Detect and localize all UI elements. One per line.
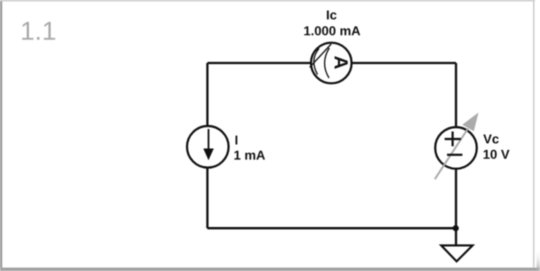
current direction arrow shaft xyxy=(208,129,210,151)
variable arrow shaft xyxy=(435,129,468,180)
variable arrow head xyxy=(462,113,478,132)
current source I (1 mA) xyxy=(187,126,229,168)
node junction dot xyxy=(453,225,459,231)
minus sign xyxy=(447,154,462,156)
ammeter letter A (rotated) xyxy=(335,56,348,69)
wire left xyxy=(206,63,208,228)
wire bottom xyxy=(207,227,456,229)
plus sign xyxy=(445,132,461,147)
value 1.000 mA xyxy=(304,26,360,35)
label Vc xyxy=(483,135,498,144)
ammeter body circle xyxy=(311,43,352,84)
wire top xyxy=(207,62,456,64)
label Ic xyxy=(327,11,337,20)
value 10 V xyxy=(484,150,510,159)
current source body circle xyxy=(187,126,229,168)
ammeter Ic xyxy=(310,43,352,84)
wire right xyxy=(455,63,457,245)
ammeter needle xyxy=(310,44,332,67)
ground xyxy=(441,245,472,261)
ammeter scale arc left xyxy=(314,49,319,75)
current direction arrow head xyxy=(203,149,214,161)
label 1.1 xyxy=(22,22,55,40)
value 1 mA xyxy=(234,151,265,160)
ammeter scale arc right xyxy=(325,48,330,78)
voltage source body circle xyxy=(435,127,477,169)
label I xyxy=(236,136,238,145)
voltage source Vc (10 V) xyxy=(435,113,479,180)
